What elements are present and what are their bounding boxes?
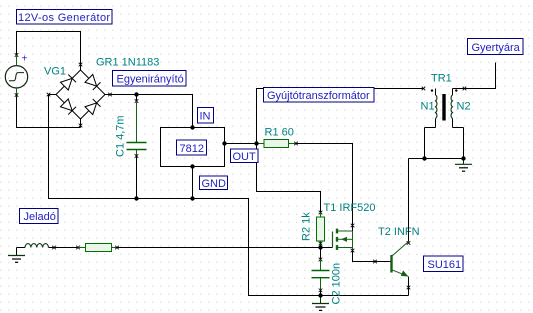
- svg-text:GR1 1N1183: GR1 1N1183: [96, 57, 159, 69]
- transistor T2 (NPN): [392, 242, 409, 277]
- wire: transformer N1 bottom leg: [424, 128, 426, 159]
- svg-text:T2 INFN: T2 INFN: [378, 226, 420, 238]
- junction dot: C2 at bottom rail: [318, 293, 322, 297]
- value label box: 7812: [177, 140, 207, 155]
- net label box: Jelado: [20, 209, 59, 224]
- svg-text:VG1: VG1: [44, 66, 66, 78]
- svg-text:C1 4,7m: C1 4,7m: [115, 115, 127, 157]
- svg-text:TR1: TR1: [431, 73, 452, 85]
- net label box: SU161: [424, 256, 464, 272]
- ground: under transformer: [455, 159, 472, 172]
- junction dot: N2 leg at rail: [461, 156, 465, 160]
- phase dot N1: [431, 89, 433, 91]
- phase dot N2: [455, 89, 457, 91]
- junction dot: C1 at ground rail: [134, 196, 138, 200]
- wire: OUT node down to R2: [257, 144, 321, 213]
- svg-text:N1: N1: [421, 101, 435, 113]
- wire: regulator GND down to rail: [192, 167, 194, 199]
- svg-text:12V-os Generátor: 12V-os Generátor: [18, 12, 110, 24]
- wire: transformer secondary bottom rail: [409, 158, 464, 160]
- pin label box: GND: [200, 176, 228, 190]
- wire: T2 collector up to transformer rail: [408, 159, 410, 242]
- bridge diode top-right: [85, 74, 97, 86]
- wire: generator top loop: [15, 32, 83, 67]
- wire: coil to series resistor: [54, 247, 78, 249]
- svg-text:Gyújtótranszformátor: Gyújtótranszformátor: [267, 90, 370, 102]
- junction dot: regulator GND: [190, 164, 194, 168]
- junction dot: gate node: [318, 245, 322, 249]
- junction dot: GND at ground rail: [190, 196, 194, 200]
- wire: transformer N2 bottom leg: [463, 128, 465, 159]
- junction dot: bridge output at C1: [134, 92, 138, 96]
- pin label box: OUT: [231, 149, 259, 163]
- bridge diamond outline: [56, 70, 105, 119]
- net label box: Gyujtotranszformator: [264, 88, 375, 103]
- wire: regulator OUT: [225, 143, 257, 145]
- resistor R1: [257, 140, 298, 148]
- MOSFET T1 IRF520: [333, 229, 355, 253]
- svg-text:T1 IRF520: T1 IRF520: [324, 202, 376, 214]
- bridge diode bottom-right: [85, 103, 97, 115]
- transformer TR1: [425, 87, 467, 128]
- wire: bridge positive output to regulator input: [111, 95, 193, 128]
- voltage regulator U1 7812 body: [161, 128, 225, 167]
- net label box: Egyeniranyito: [113, 71, 187, 87]
- svg-text:Jeladó: Jeladó: [24, 211, 56, 223]
- bridge diode top-left: [60, 78, 72, 90]
- svg-text:OUT: OUT: [233, 151, 257, 163]
- bridge rectifier GR1: [47, 64, 112, 128]
- svg-text:R1 60: R1 60: [265, 127, 294, 139]
- svg-text:SU161: SU161: [428, 259, 462, 271]
- svg-text:N2: N2: [457, 101, 471, 113]
- inductor pickup coil: [17, 244, 56, 250]
- wire: T1 source to T2 base: [353, 250, 391, 262]
- wire: gate node to T1 gate: [321, 247, 333, 249]
- wire: OUT node up to transformer primary: [257, 89, 424, 144]
- bridge pin right: [105, 94, 111, 96]
- wire: ground rail from bridge negative: [49, 95, 409, 296]
- bridge pin left: [49, 94, 57, 96]
- svg-text:Gyertyára: Gyertyára: [472, 42, 521, 54]
- wire: R1 to T1 drain: [296, 144, 353, 232]
- bridge pin top: [80, 64, 82, 71]
- svg-text:GND: GND: [202, 178, 227, 190]
- wire: sensor signal to gate node: [117, 247, 321, 249]
- junction dot: OUT node: [254, 141, 258, 145]
- ground: sensor input: [8, 248, 25, 263]
- svg-text:Egyenirányító: Egyenirányító: [117, 74, 184, 86]
- wire: generator bottom to bridge: [17, 97, 81, 128]
- svg-text:IN: IN: [200, 111, 211, 123]
- capacitor C1: [127, 95, 147, 199]
- net label box: Gyertyara: [468, 39, 524, 55]
- svg-text:7812: 7812: [180, 143, 204, 155]
- ground: under C2: [312, 296, 329, 311]
- AC source VG1: [5, 54, 27, 97]
- svg-text:C2 100n: C2 100n: [331, 263, 343, 305]
- svg-text:R2 1k: R2 1k: [301, 212, 313, 241]
- capacitor C2: [312, 248, 330, 296]
- junction dot: regulator OUT: [222, 141, 226, 145]
- junction dot: regulator IN: [190, 125, 194, 129]
- wire: T2 emitter down to bottom rail: [408, 277, 410, 296]
- bridge diode bottom-left: [60, 99, 72, 111]
- pin label box: IN: [198, 108, 214, 124]
- svg-text:+: +: [22, 54, 28, 65]
- junction dot: N1 leg at rail: [422, 156, 426, 160]
- resistor R2: [317, 213, 325, 248]
- resistor (sensor series): [78, 244, 119, 252]
- bridge pin bottom: [80, 119, 82, 128]
- net label box: 12V-os Generator: [17, 10, 113, 25]
- wire: transformer N2 to spark plug label: [466, 63, 496, 89]
